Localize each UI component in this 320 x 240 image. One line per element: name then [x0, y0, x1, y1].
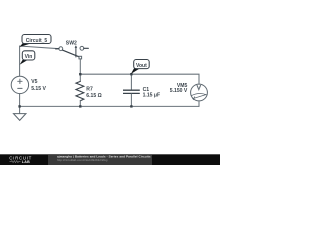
svg-text:6.15 Ω: 6.15 Ω [86, 93, 101, 99]
svg-text:Circuit_5: Circuit_5 [26, 38, 48, 44]
svg-text:LAB: LAB [22, 160, 30, 164]
svg-text:Vout: Vout [136, 63, 147, 69]
svg-text:R7: R7 [86, 86, 93, 92]
svg-text:http://circuitlab.com/c/kub49d: http://circuitlab.com/c/kub49db32/2tkg [57, 158, 108, 162]
svg-text:5.150 V: 5.150 V [170, 88, 188, 94]
svg-text:5.15 V: 5.15 V [31, 86, 46, 92]
svg-text:Vin: Vin [25, 54, 33, 60]
svg-text:V5: V5 [31, 79, 37, 85]
svg-text:1.15 μF: 1.15 μF [143, 92, 161, 98]
svg-text:SW2: SW2 [66, 40, 77, 46]
